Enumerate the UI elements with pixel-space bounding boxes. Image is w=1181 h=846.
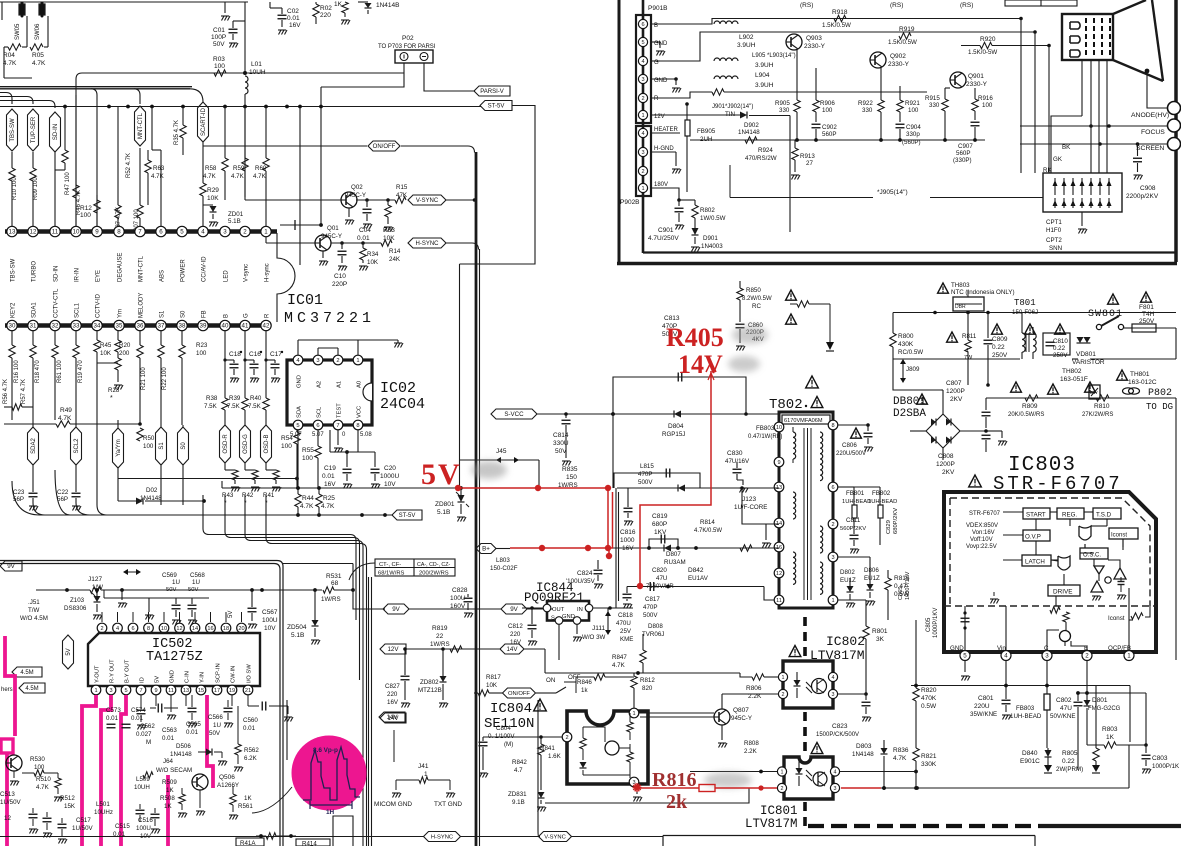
svg-text:FMG-G2CG: FMG-G2CG [1088,706,1121,712]
svg-text:220P: 220P [332,281,347,288]
svg-text:0. 1/100V: 0. 1/100V [488,733,515,740]
wire sw06 down [44,16,48,47]
svg-text:1U: 1U [192,579,200,586]
text J905 [730,165,1043,198]
wire R line [651,89,927,98]
svg-text:LATCH: LATCH [1025,559,1045,566]
capacitor C801 [970,660,1011,720]
svg-text:R: R [654,96,659,102]
svg-text:W/O 3W: W/O 3W [582,634,606,641]
svg-text:100: 100 [80,212,91,219]
svg-text:0.22: 0.22 [1053,345,1066,352]
svg-text:945C-Y: 945C-Y [321,233,342,240]
resistor R842 [512,759,527,774]
svg-text:H-SYNC: H-SYNC [415,241,439,247]
svg-text:470P: 470P [643,604,657,611]
svg-text:10K: 10K [100,350,112,357]
svg-text:OSD-R: OSD-R [223,434,229,454]
svg-text:4: 4 [116,626,119,632]
svg-text:1000: 1000 [620,537,635,544]
resistor R49 [4,407,142,427]
svg-text:MNT-CTL: MNT-CTL [139,255,145,282]
svg-text:C820: C820 [652,567,667,574]
resistor R61 [52,330,63,420]
svg-text:35W/KNE: 35W/KNE [970,711,997,718]
svg-text:R801: R801 [872,628,888,635]
svg-text:L902: L902 [739,34,754,41]
svg-text:100: 100 [982,102,993,109]
text MICOM GND [374,801,412,808]
svg-text:R805: R805 [1062,750,1078,757]
diode 1N414B [358,2,400,14]
svg-text:R924: R924 [758,147,773,154]
svg-text:12V: 12V [387,646,399,653]
resistor R05 [30,44,46,67]
svg-text:SW06: SW06 [35,23,41,40]
CRT bell [1113,0,1167,108]
svg-text:330: 330 [929,102,940,109]
waveform text [313,747,338,754]
svg-text:C22: C22 [57,489,69,496]
svg-text:4.7K: 4.7K [300,503,314,510]
svg-text:C04: C04 [359,227,371,234]
resistor R54 [281,420,300,488]
svg-text:A1266Y: A1266Y [217,782,239,789]
op-amp IC502 body [88,633,260,686]
wire ic844 in [593,606,633,610]
svg-text:TURBO: TURBO [32,261,38,282]
svg-text:V-SYNC: V-SYNC [544,835,566,841]
svg-text:3: 3 [1045,653,1049,660]
svg-text:15: 15 [198,688,204,694]
svg-text:C569: C569 [162,572,177,579]
text CPT1 [1046,219,1062,252]
resistor R60 [253,107,269,240]
wire d842 line [627,582,774,600]
wire pin4 [1005,606,1007,651]
diode D802 [840,569,856,608]
svg-text:27: 27 [806,160,813,167]
CRT socket [1062,14,1113,60]
capacitor C19 [322,452,352,489]
wire ST-5V rail [12,363,393,517]
svg-text:25V: 25V [620,628,632,635]
svg-text:H1F0: H1F0 [1046,227,1062,234]
svg-text:MC37221: MC37221 [284,310,375,327]
IC01 pin names bottom [11,288,271,318]
capacitor C515 [113,823,130,838]
text BK [1062,144,1071,151]
svg-text:220: 220 [510,631,521,638]
svg-text:18: 18 [223,626,229,632]
svg-text:14V: 14V [506,646,518,653]
resistor R44 [295,488,315,515]
svg-text:4.5M: 4.5M [20,670,33,676]
svg-text:ABS: ABS [160,270,166,282]
text J901 [712,104,753,118]
svg-text:R814: R814 [700,519,715,526]
jumper J41 [392,763,455,798]
capacitor C20 [345,450,399,488]
svg-text:R55: R55 [302,447,314,454]
svg-text:4: 4 [201,229,205,236]
resistor R913 [791,140,815,180]
capacitor C560 [243,702,293,733]
svg-text:12: 12 [176,626,182,632]
connector P902B [620,126,651,206]
svg-text:R906: R906 [820,100,835,107]
svg-text:TIN: TIN [725,111,735,118]
wire sw05 down [22,16,27,47]
svg-text:C907: C907 [958,143,973,150]
net ST-5V top [460,101,536,265]
capacitor C815 [614,463,700,492]
svg-text:C827: C827 [385,683,400,690]
wire 12V line [651,112,790,233]
svg-text:2W(PRM): 2W(PRM) [1056,766,1083,773]
svg-text:EU1Z: EU1Z [840,577,856,584]
svg-text:1200P: 1200P [936,461,955,468]
svg-text:5V: 5V [66,648,72,655]
svg-text:13: 13 [9,229,16,236]
wire red R816 [637,785,881,792]
svg-text:4: 4 [832,675,835,681]
net ON/OFF b [503,688,546,698]
block OSC [1080,548,1108,559]
transformer T802 windings [793,427,823,594]
svg-text:3: 3 [223,229,227,236]
capacitor C805 [926,608,939,638]
wire x321 tick [280,220,323,230]
svg-text:500V: 500V [643,612,658,619]
svg-text:F801: F801 [1139,304,1154,311]
text GK [1053,156,1063,163]
svg-text:SCART-ID: SCART-ID [201,107,207,136]
IC802 label [789,634,865,663]
svg-text:C802: C802 [1056,697,1072,704]
resistor R58 [203,107,228,200]
resistor R41 [263,470,281,507]
svg-text:C807: C807 [946,380,962,387]
optocoupler IC802 [778,661,837,708]
svg-text:1U: 1U [213,722,221,729]
svg-text:C808: C808 [938,453,954,460]
svg-text:1U: 1U [172,579,180,586]
svg-text:C567: C567 [262,609,278,616]
wire pin5 cap [961,606,970,651]
svg-text:3: 3 [109,688,112,694]
text table top [1005,0,1077,6]
resistor R28 [108,358,123,402]
svg-text:BK: BK [1062,144,1071,151]
svg-text:10V: 10V [264,625,276,632]
svg-text:J809: J809 [906,366,920,373]
svg-text:IR-IN: IR-IN [75,268,81,282]
svg-text:5: 5 [963,653,967,660]
inductor FB803 [1010,660,1050,748]
svg-text:S0: S0 [181,442,187,450]
svg-text:TUP-SER: TUP-SER [31,116,37,143]
svg-text:T801: T801 [1014,298,1036,308]
svg-text:9: 9 [777,460,780,466]
svg-text:200/2W/RS: 200/2W/RS [419,571,449,577]
svg-text:SW05: SW05 [15,23,21,40]
resistor R918 [822,9,851,29]
svg-text:680P/2KV: 680P/2KV [893,508,899,534]
svg-text:2: 2 [641,96,644,102]
capacitor C04 [357,198,372,242]
svg-text:330p: 330p [906,131,920,138]
svg-text:2UH: 2UH [700,136,712,143]
IC502 top pin row [97,612,246,633]
svg-text:470/RS/2W: 470/RS/2W [745,155,777,162]
svg-text:6: 6 [316,423,319,429]
svg-text:T.S.D: T.S.D [1096,512,1112,519]
op-amp IC803 body [944,492,1156,652]
svg-text:ST-5V: ST-5V [488,104,505,110]
svg-text:PARSI-V: PARSI-V [480,89,504,95]
svg-text:TH803: TH803 [951,282,970,289]
resistor R812 [631,673,656,713]
net OSD-R [220,410,231,470]
svg-text:TH801: TH801 [1130,371,1150,378]
resistor R23 [179,330,208,425]
svg-text:STR-F6707: STR-F6707 [969,511,1001,517]
inductor FB802 [854,487,897,545]
highlight trace yin [207,695,213,788]
svg-text:R800: R800 [898,333,914,340]
bus wire [0,87,203,102]
svg-text:1U/F-CORE: 1U/F-CORE [734,504,767,511]
svg-text:I/O SW: I/O SW [247,664,253,683]
svg-text:1: 1 [356,358,359,364]
jumper J51 [20,599,48,622]
svg-text:ZD504: ZD504 [287,624,307,631]
svg-text:1K: 1K [1106,734,1115,741]
svg-text:220U/500V: 220U/500V [836,451,866,457]
svg-text:1N414B: 1N414B [376,2,400,9]
diode D803 [852,740,888,790]
svg-text:R23: R23 [196,342,208,349]
svg-text:W/O 4.5M: W/O 4.5M [20,615,48,622]
svg-text:3K: 3K [876,636,885,643]
svg-text:9V: 9V [7,563,15,570]
wire red B+ [510,545,613,551]
svg-text:68: 68 [331,580,339,587]
svg-text:100P: 100P [211,34,226,41]
svg-text:T/W: T/W [28,607,39,614]
wire to P802 [1175,398,1177,430]
svg-text:2330-Y: 2330-Y [888,61,910,68]
net SCL2 [71,420,82,490]
svg-text:R530: R530 [30,756,45,763]
svg-text:V-SYNC: V-SYNC [416,198,439,204]
transformer T802 label [769,397,823,414]
net H-SYNC b [424,832,461,842]
svg-text:820: 820 [642,685,653,692]
connector P02 [378,35,436,63]
resistor R531 [321,573,385,609]
svg-text:L509: L509 [136,776,150,783]
svg-text:1.5K/0-5W: 1.5K/0-5W [968,49,997,56]
wire pin stubs [141,695,248,706]
resistor R802 [679,200,726,228]
svg-text:S1: S1 [160,310,166,318]
wire 673 [545,649,779,677]
resistor 1K [334,1,350,25]
wire AC bottom [893,358,1176,360]
svg-text:150: 150 [566,474,577,481]
net B+ [476,544,510,554]
svg-text:EU1AV: EU1AV [688,575,709,582]
capacitor C904 [896,124,922,146]
resistor R57 [4,379,33,410]
wire osd columns [225,330,266,398]
svg-text:SCL: SCL [317,406,323,418]
resistor R46 [73,95,82,226]
resistor R819 [430,625,462,652]
svg-text:100: 100 [822,107,833,114]
svg-text:20: 20 [238,626,244,632]
svg-text:D807: D807 [666,551,681,558]
svg-text:Q506: Q506 [219,774,235,781]
wire socket pins [1051,60,1107,173]
inductor FB801 [838,487,871,530]
svg-text:4: 4 [641,131,644,137]
svg-text:C803: C803 [1152,755,1168,762]
thermistor TH801 [1117,370,1157,394]
wire G line [651,60,660,62]
inductor FB803b [748,425,782,440]
svg-text:Iconst: Iconst [1108,615,1125,622]
diode D506 [170,743,222,758]
svg-text:SCL2: SCL2 [74,438,80,454]
resistor R814 [694,519,752,551]
svg-text:R10 100: R10 100 [12,177,18,200]
highlight trace pin5 [121,695,126,846]
svg-text:1.5K/0.5W: 1.5K/0.5W [822,22,851,29]
svg-text:*: * [110,395,113,402]
svg-text:1W/0.5W: 1W/0.5W [700,215,726,222]
svg-text:OUT: OUT [552,607,565,613]
net S1 [156,425,167,505]
svg-text:EYE: EYE [96,270,102,282]
svg-text:3: 3 [834,786,837,792]
capacitor C569 [162,572,198,625]
svg-text:4.7U/250V: 4.7U/250V [648,235,679,242]
svg-text:J45: J45 [496,448,507,455]
inductor L803 [490,557,518,572]
wire hgnd [651,152,681,174]
svg-text:LTV817M: LTV817M [745,817,798,831]
block REG [1057,508,1084,519]
svg-text:VCC: VCC [357,406,363,418]
wire gnd pin [167,706,176,720]
resistor R809 [1008,382,1044,418]
capacitor C804 [479,725,516,778]
svg-text:ON/OFF: ON/OFF [508,691,530,697]
resistor R922 [858,68,884,140]
svg-text:R04: R04 [3,52,15,59]
wire section border [0,561,283,846]
svg-text:5V: 5V [228,611,234,618]
wire IC801 pin4 [840,771,916,773]
op-amp IC01 body [277,233,375,327]
svg-text:163-012C: 163-012C [1128,379,1157,386]
svg-text:R561: R561 [238,803,253,810]
svg-text:TO P703 FOR PARSI: TO P703 FOR PARSI [378,44,436,50]
svg-text:D804: D804 [668,423,684,430]
svg-text:Q901: Q901 [968,73,984,80]
svg-text:LED: LED [224,270,230,282]
svg-text:21: 21 [245,688,251,694]
svg-text:5.1B: 5.1B [291,632,304,639]
svg-text:C515: C515 [115,823,130,830]
svg-text:C902: C902 [822,124,837,131]
resistor R63 [145,150,165,205]
block START [1023,508,1050,519]
svg-text:C830: C830 [727,450,743,457]
svg-text:163-051F: 163-051F [1060,376,1088,383]
svg-text:4.7K: 4.7K [612,662,626,669]
svg-text:5.1B: 5.1B [437,509,450,516]
junction red star [633,783,642,792]
connector P802 [1146,388,1173,412]
wire 5V label pin [228,611,234,618]
svg-text:C904: C904 [906,124,921,131]
svg-text:L501: L501 [96,801,110,808]
svg-text:SW801: SW801 [1088,309,1123,320]
svg-text:2: 2 [100,626,103,632]
svg-text:1U/50V: 1U/50V [72,825,94,832]
optocoupler IC801 [777,757,839,799]
svg-text:1: 1 [641,113,644,119]
switch SW06 [35,2,45,41]
wire IC801 pin2 feed [545,788,761,803]
svg-text:R41A: R41A [240,840,256,846]
svg-text:100U: 100U [136,825,151,832]
svg-text:1: 1 [831,598,834,604]
svg-text:32: 32 [52,323,59,330]
transistor Qx [6,755,22,786]
svg-text:R811: R811 [962,333,977,340]
wire top border [0,2,248,20]
net H-SYNC [266,238,479,250]
net 9V a [383,604,501,614]
svg-text:1K: 1K [166,787,174,794]
svg-text:3.9UH: 3.9UH [755,62,774,69]
svg-text:.J51: .J51 [28,599,40,606]
capacitor C807 [946,380,991,428]
svg-text:L815: L815 [640,463,654,470]
waveform trace [303,747,360,800]
svg-text:R510: R510 [36,776,51,783]
svg-text:R14: R14 [389,248,401,255]
svg-text:24C04: 24C04 [380,396,425,413]
svg-text:16V: 16V [324,481,336,488]
svg-text:C19: C19 [324,465,336,472]
svg-text:SCP-IN: SCP-IN [216,663,222,683]
svg-text:TA1275Z: TA1275Z [146,650,203,665]
svg-text:R803: R803 [1102,726,1118,733]
resistor R800 [890,333,923,356]
net Ya/Ym [113,420,124,501]
svg-text:220: 220 [387,691,398,698]
varistor VD801 [1072,337,1105,366]
waveform circle [292,736,367,811]
svg-text:36: 36 [137,323,144,330]
resistor R47 [55,107,71,226]
